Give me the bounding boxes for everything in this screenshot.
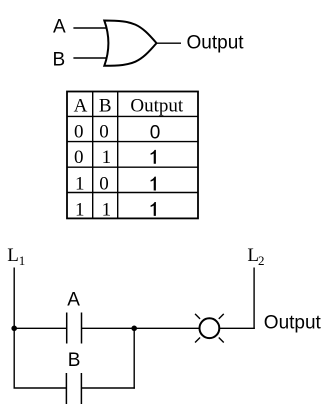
wire branch drop (133, 328, 135, 388)
wire A input (73, 27, 110, 29)
svg-text:1: 1 (102, 147, 112, 168)
svg-text:Output: Output (187, 33, 245, 54)
svg-text:A: A (67, 290, 80, 311)
svg-text:1: 1 (19, 253, 26, 268)
svg-text:0: 0 (150, 122, 161, 143)
svg-text:B: B (53, 49, 66, 70)
svg-text:B: B (99, 95, 112, 116)
wire branch right segment (81, 387, 134, 389)
left power rail L1 wire (13, 268, 15, 389)
svg-text:1: 1 (75, 174, 85, 195)
table row2 Output value 1 (151, 150, 156, 164)
svg-text:0: 0 (99, 174, 109, 195)
svg-text:L: L (7, 245, 19, 266)
node junction left (11, 326, 17, 332)
wire rung middle segment (82, 327, 200, 329)
svg-text:0: 0 (74, 147, 84, 168)
svg-text:1: 1 (75, 200, 85, 221)
table row line 3 (67, 192, 198, 194)
wire output (157, 42, 182, 44)
svg-text:A: A (74, 95, 88, 116)
lamp Output (195, 314, 224, 343)
svg-text:0: 0 (99, 121, 109, 142)
table row4 Output value 1 (151, 202, 156, 216)
table row3 Output value 1 (151, 177, 156, 191)
wire B input (73, 57, 110, 59)
svg-text:1: 1 (102, 200, 112, 221)
svg-text:B: B (68, 350, 81, 371)
node junction branch (131, 326, 137, 332)
svg-text:Output: Output (130, 95, 184, 116)
table row line header (67, 115, 198, 117)
wire rung left segment (14, 327, 66, 329)
truth table frame (67, 92, 198, 219)
rail label L1 (7, 245, 25, 268)
contact A (67, 313, 82, 344)
table row line 2 (67, 166, 198, 168)
svg-text:0: 0 (74, 121, 84, 142)
table column divider B|Output (117, 92, 119, 219)
svg-text:Output: Output (264, 313, 322, 334)
OR gate U1 (104, 21, 156, 66)
table column divider A|B (92, 92, 94, 219)
right power rail L2 wire (253, 268, 255, 330)
contact B (66, 373, 81, 404)
svg-text:A: A (53, 16, 66, 37)
wire branch left segment (14, 387, 67, 389)
table row line 1 (67, 141, 198, 143)
rail label L2 (247, 245, 264, 268)
svg-text:2: 2 (258, 253, 265, 268)
wire rung right segment (219, 327, 255, 329)
